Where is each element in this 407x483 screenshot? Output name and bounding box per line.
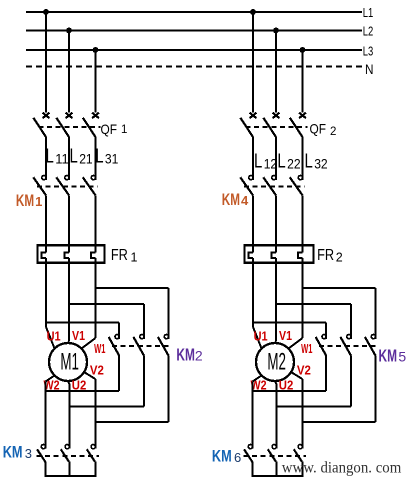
svg-text:5: 5: [398, 349, 406, 365]
svg-text:L1: L1: [363, 5, 374, 20]
contactor KM3 star pole 2: [61, 445, 69, 462]
svg-text:L: L: [95, 146, 103, 168]
FR1 heater element pole 1: [42, 247, 46, 264]
wire FR1 pole 1 to motor U1 terminal: [46, 263, 55, 348]
svg-text:1: 1: [121, 124, 127, 136]
label V2 terminal M2: [297, 364, 311, 378]
label W1 terminal M2: [301, 342, 312, 356]
contactor KM6 star pole 1: [244, 445, 252, 462]
node L2 tap junction (motor 1): [66, 28, 72, 34]
label V1 terminal M1: [72, 329, 85, 343]
wire branch pole 3 to KM2 pole 3: [96, 288, 169, 339]
svg-text:3: 3: [25, 446, 32, 461]
wire FR2 pole 3 to motor W1 terminal: [288, 263, 302, 348]
svg-text:KM: KM: [379, 345, 398, 365]
svg-text:M2: M2: [267, 349, 286, 376]
svg-text:KM: KM: [222, 190, 240, 209]
contactor KM1 main pole 3: [83, 176, 96, 196]
svg-text:M1: M1: [60, 349, 79, 376]
label QF1: [101, 121, 128, 137]
wire motor M1 W2 to KM3 pole 1: [46, 375, 55, 448]
FR1 heater element pole 2: [65, 247, 69, 264]
svg-text:QF: QF: [101, 121, 118, 137]
contactor KM2 delta pole 1: [109, 335, 120, 356]
label L3: [363, 44, 374, 59]
svg-text:21: 21: [79, 152, 93, 167]
label KM5: [379, 345, 407, 365]
power line L1: [26, 11, 362, 13]
wire branch pole 1 to KM2 pole 1: [46, 322, 119, 339]
wire FR1 pole 2 to motor V1 terminal: [68, 263, 69, 343]
label W2 terminal M1: [44, 379, 60, 393]
label KM1: [16, 191, 42, 210]
label U2 terminal M2: [279, 379, 294, 393]
motor M2: [256, 343, 294, 381]
svg-text:L2: L2: [363, 24, 374, 39]
contactor KM2 delta pole 3: [158, 335, 169, 356]
svg-text:V2: V2: [90, 364, 104, 378]
wire KM1 pole 3 to FR1: [95, 195, 97, 246]
contactor KM5 delta pole 3: [365, 335, 376, 356]
svg-text:L3: L3: [363, 44, 374, 59]
wire branch pole 3 to KM5 pole 3: [303, 288, 376, 339]
wire KM5 pole 2 to motor U2 node: [276, 356, 351, 407]
svg-text:KM: KM: [16, 191, 34, 210]
wire L3 drop to QF1 pole 3: [95, 50, 97, 112]
svg-text:QF: QF: [310, 121, 327, 137]
label FR1: [111, 247, 138, 265]
svg-text:U1: U1: [47, 330, 61, 344]
label U1 terminal M2: [254, 330, 268, 344]
wire KM2 pole 3 to motor V2 node: [95, 356, 168, 422]
wire motor M2 W2 to KM6 pole 1: [253, 375, 262, 448]
wire branch pole 2 to KM2 pole 2: [69, 304, 144, 339]
wire QF1 pole 2 to KM1 pole 2: [68, 137, 70, 180]
FR2 heater element pole 1: [249, 247, 253, 264]
FR2 heater element pole 3: [298, 247, 302, 264]
svg-text:L: L: [305, 151, 313, 173]
wire FR2 pole 2 to motor V1 terminal: [275, 263, 276, 343]
wire KM1 pole 1 to FR1: [45, 195, 47, 246]
svg-text:32: 32: [314, 157, 328, 172]
label U1 terminal M1: [47, 330, 61, 344]
contactor KM3 star pole 1: [37, 445, 46, 462]
label L1: [363, 5, 374, 20]
circuit breaker QF2 pole 3: [290, 113, 306, 137]
wire L3 drop to QF2 pole 3: [302, 50, 304, 112]
svg-text:2: 2: [330, 126, 336, 138]
wire QF2 pole 3 to KM4 pole 3: [302, 137, 304, 180]
wire FR2 pole 1 to motor U1 terminal: [253, 263, 262, 348]
svg-text:KM: KM: [3, 444, 23, 462]
circuit breaker QF2 pole 1: [240, 113, 256, 137]
svg-text:1: 1: [131, 251, 138, 265]
power line L3: [26, 49, 362, 51]
label KM3: [3, 444, 32, 462]
wire branch pole 1 to KM5 pole 1: [253, 322, 326, 339]
label U2 terminal M1: [72, 379, 87, 393]
label L22 (QF2 pole 2 output): [277, 151, 300, 173]
label KM6: [212, 448, 241, 466]
node L3 tap junction (motor 1): [93, 47, 99, 53]
breaker QF2 mechanical link: [246, 126, 308, 128]
svg-text:L: L: [70, 146, 78, 168]
wire motor M1 V2 to KM3 pole 3: [84, 372, 95, 448]
svg-text:1: 1: [35, 194, 42, 209]
contactor KM5 mechanical link: [319, 345, 378, 347]
label L21 (QF1 pole 2 output): [70, 146, 93, 168]
contactor KM3 mechanical link: [37, 455, 100, 457]
wire L1 drop to QF1 pole 1: [45, 12, 47, 112]
wire branch pole 2 to KM5 pole 2: [276, 304, 351, 339]
wire KM2 pole 1 to motor W2 node: [46, 356, 120, 391]
svg-text:11: 11: [55, 152, 68, 167]
wire L2 drop to QF2 pole 2: [275, 31, 277, 113]
contactor KM3 star pole 3: [87, 445, 95, 462]
label KM4: [222, 190, 249, 209]
label W1 terminal M1: [94, 342, 105, 356]
label QF2: [310, 121, 337, 139]
contactor KM6 star pole 2: [268, 445, 277, 462]
label FR2: [317, 247, 343, 265]
svg-text:12: 12: [264, 157, 278, 172]
svg-text:L: L: [46, 146, 54, 168]
svg-text:W1: W1: [94, 342, 105, 356]
svg-text:V2: V2: [297, 364, 311, 378]
wire QF1 pole 3 to KM1 pole 3: [95, 137, 97, 180]
contactor KM6 star pole 3: [294, 445, 303, 462]
contactor KM5 delta pole 1: [316, 335, 327, 356]
svg-text:W1: W1: [301, 342, 312, 356]
power line N (neutral): [26, 66, 362, 68]
contactor KM2 mechanical link: [112, 345, 171, 347]
wire star-point bus KM6: [252, 462, 304, 476]
wire QF2 pole 2 to KM4 pole 2: [275, 137, 277, 180]
circuit breaker QF2 pole 2: [263, 113, 279, 137]
label V1 terminal M2: [279, 329, 292, 343]
contactor KM4 main pole 1: [240, 176, 253, 196]
thermal relay FR2 box: [245, 245, 314, 263]
label KM2: [176, 344, 203, 364]
svg-text:U1: U1: [254, 330, 268, 344]
wire motor M1 U2 to KM3 pole 2: [68, 381, 69, 448]
label L2: [363, 24, 374, 39]
svg-text:N: N: [365, 61, 374, 77]
wire FR1 pole 3 to motor W1 terminal: [81, 263, 95, 348]
circuit breaker QF1 pole 1: [33, 113, 49, 137]
wire KM2 pole 2 to motor U2 node: [69, 356, 144, 407]
wire QF1 pole 1 to KM1 pole 1: [45, 137, 47, 180]
FR2 heater element pole 2: [272, 247, 276, 264]
node L1 tap junction (motor 2): [250, 9, 256, 15]
circuit breaker QF1 pole 3: [83, 113, 99, 137]
label L12 (QF2 pole 1 output): [254, 151, 277, 173]
watermark www.diangon.com: [282, 460, 402, 477]
svg-text:L: L: [277, 151, 285, 173]
contactor KM4 main pole 2: [263, 176, 276, 196]
contactor KM4 main pole 3: [290, 176, 303, 196]
svg-text:FR: FR: [111, 247, 128, 264]
wire star-point bus KM3: [45, 462, 97, 476]
label L11 (QF1 pole 1 output): [46, 146, 69, 168]
wire motor M2 U2 to KM6 pole 2: [275, 381, 276, 448]
node L1 tap junction (motor 1): [43, 9, 49, 15]
node L3 tap junction (motor 2): [300, 47, 306, 53]
svg-text:www. diangon. com: www. diangon. com: [282, 460, 402, 477]
wire KM4 pole 1 to FR2: [252, 195, 254, 246]
contactor KM1 main pole 1: [33, 176, 46, 196]
svg-text:FR: FR: [317, 247, 334, 264]
FR1 heater element pole 3: [91, 247, 95, 264]
contactor KM4 mechanical link: [244, 186, 305, 188]
contactor KM2 delta pole 2: [133, 335, 144, 356]
wire KM1 pole 2 to FR1: [68, 195, 70, 246]
label V2 terminal M1: [90, 364, 104, 378]
label N: [365, 61, 374, 77]
wire KM4 pole 3 to FR2: [302, 195, 304, 246]
motor M1: [49, 343, 87, 381]
wire KM5 pole 1 to motor W2 node: [253, 356, 327, 391]
wire motor M2 V2 to KM6 pole 3: [291, 372, 302, 448]
svg-text:KM: KM: [212, 448, 232, 466]
contactor KM1 mechanical link: [37, 186, 98, 188]
svg-text:V1: V1: [279, 329, 292, 343]
svg-text:31: 31: [105, 152, 119, 167]
circuit breaker QF1 pole 2: [56, 113, 72, 137]
svg-text:4: 4: [241, 193, 249, 208]
label W2 terminal M2: [251, 379, 267, 393]
contactor KM5 delta pole 2: [340, 335, 351, 356]
wire KM5 pole 3 to motor V2 node: [302, 356, 375, 422]
wire QF2 pole 1 to KM4 pole 1: [252, 137, 254, 180]
svg-text:KM: KM: [176, 344, 195, 364]
contactor KM1 main pole 2: [56, 176, 69, 196]
svg-text:V1: V1: [72, 329, 85, 343]
contactor KM6 mechanical link: [244, 455, 307, 457]
power line L2: [26, 30, 362, 32]
svg-text:2: 2: [336, 251, 343, 265]
wire L1 drop to QF2 pole 1: [252, 12, 254, 112]
svg-text:22: 22: [287, 157, 301, 172]
wire KM4 pole 2 to FR2: [275, 195, 277, 246]
svg-text:L: L: [254, 151, 262, 173]
breaker QF1 mechanical link: [39, 126, 101, 128]
wire L2 drop to QF1 pole 2: [68, 31, 70, 113]
label L32 (QF2 pole 3 output): [305, 151, 328, 173]
node L2 tap junction (motor 2): [273, 28, 279, 34]
label L31 (QF1 pole 3 output): [95, 146, 118, 168]
svg-text:2: 2: [195, 348, 203, 364]
svg-text:6: 6: [234, 450, 241, 465]
thermal relay FR1 box: [38, 245, 105, 263]
